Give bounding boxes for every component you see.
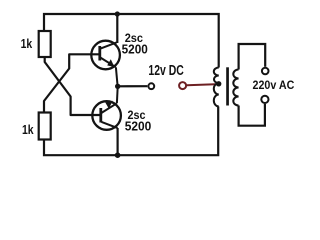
svg-text:12v DC: 12v DC [148, 63, 184, 79]
svg-text:1k: 1k [22, 122, 34, 137]
terminal 220v top [262, 68, 269, 75]
wire R2 bottom + bottom rail + primary bottom riser [44, 107, 218, 156]
junction dot emitters node [115, 84, 120, 89]
transformer T1 primary winding [214, 68, 219, 107]
wire R1 bottom to Q2 base (diagonal cross) [45, 57, 102, 115]
wire top rail [44, 14, 219, 68]
wire red to transformer center tap [187, 84, 219, 85]
terminal 220v bottom [261, 96, 268, 103]
svg-text:5200: 5200 [122, 41, 148, 56]
wire emitters to 12v terminal [118, 85, 148, 87]
transistor Q1 (2sc5200 top) [91, 41, 120, 86]
resistor R1 (1k top) [39, 31, 51, 57]
wire R2 top to Q1 base (diagonal cross) [44, 54, 101, 112]
terminal 12v DC positive (red) [179, 82, 186, 89]
wire Q1 collector to top rail [116, 14, 118, 43]
svg-text:220v AC: 220v AC [253, 78, 295, 92]
transformer T1 core [226, 67, 229, 105]
svg-text:5200: 5200 [125, 119, 152, 134]
wire secondary bottom to output loop [239, 104, 265, 126]
terminal 12v DC negative (black) [148, 83, 154, 89]
junction dot top rail [115, 11, 120, 16]
junction dot center tap [216, 81, 221, 86]
resistor R2 (1k bottom) [39, 113, 51, 140]
wire Q2 collector to bottom rail [116, 128, 118, 155]
transformer T1 secondary winding [233, 70, 238, 106]
junction dot bottom rail [115, 152, 121, 158]
svg-text:1k: 1k [21, 36, 33, 51]
transistor Q2 (2sc5200 bottom) [92, 87, 121, 130]
wire secondary top to output loop [239, 44, 266, 70]
